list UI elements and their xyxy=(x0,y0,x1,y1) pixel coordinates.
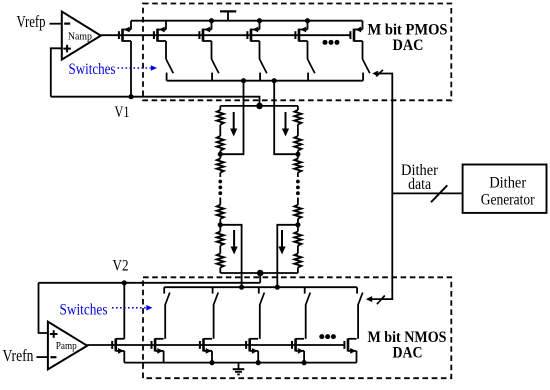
current arrow (top-right branch) xyxy=(282,112,289,137)
label Vrefp xyxy=(17,12,46,31)
wire: Vrefn to Pamp inverting input xyxy=(37,356,48,358)
resistor R5 xyxy=(217,232,224,246)
dashed enclosure: M bit NMOS DAC xyxy=(143,277,451,378)
ground xyxy=(233,363,245,375)
wire xyxy=(219,268,221,274)
label Dither data xyxy=(401,162,439,193)
wire xyxy=(219,125,221,137)
block: Dither Generator xyxy=(463,165,547,213)
wire: M1 drain down to node V1 xyxy=(130,41,132,97)
wire xyxy=(219,173,221,178)
resistor R8 xyxy=(294,136,301,151)
NMOS M8 xyxy=(152,338,164,362)
resistor R3 xyxy=(217,159,224,173)
bus slash on bottom dither line xyxy=(377,296,385,305)
supply VDD xyxy=(220,11,236,20)
junction on VDD rail at M3 source xyxy=(209,18,214,23)
bus slash on dither data branch xyxy=(431,185,447,202)
switch S3 (top DAC) xyxy=(260,41,267,81)
NMOS M10 xyxy=(246,338,258,362)
wire: ladder top bar xyxy=(220,105,298,107)
node V1 to ladder (big junction) xyxy=(256,103,263,110)
bus slash on top dither line xyxy=(376,70,383,77)
svg-text:DAC: DAC xyxy=(393,345,423,362)
wire: ladder bottom bar xyxy=(220,272,298,274)
label V2 xyxy=(113,258,129,275)
resistor R12 xyxy=(294,254,301,268)
junction: bottom bar to right ladder tap xyxy=(275,285,280,290)
wire: bottom switch output bar xyxy=(164,286,357,288)
node: right tap 2 xyxy=(295,222,300,227)
junction on ground rail at M9 xyxy=(209,360,214,365)
svg-text:Vrefp: Vrefp xyxy=(17,12,46,31)
PMOS M2 xyxy=(154,21,166,42)
label M bit PMOS DAC xyxy=(368,22,448,55)
NMOS M7 (bias, outside box) xyxy=(112,338,124,362)
current arrow (bottom-right branch) xyxy=(278,230,285,255)
node: right tap 1 xyxy=(295,152,300,157)
wire xyxy=(219,198,221,205)
ellipsis between PMOS M5 and M6 xyxy=(323,40,340,45)
label Switches (bottom) xyxy=(60,301,108,318)
wire: left tap 2 to bottom bar xyxy=(220,225,241,287)
ellipsis: right string continues xyxy=(296,180,300,196)
arrowhead: dither control to bottom switch S10 xyxy=(366,296,372,302)
switch S1 (top DAC) xyxy=(166,41,173,81)
switch S7 (bottom DAC) xyxy=(213,287,219,339)
wire xyxy=(297,219,299,232)
wire: right string top lead xyxy=(297,106,299,110)
label Vrefn xyxy=(3,346,34,365)
junction on VDD rail at M4 source xyxy=(257,18,262,23)
wire: ground rail xyxy=(124,362,356,364)
wire: Namp output to PMOS gate bus xyxy=(101,34,119,36)
junction: bar to right ladder tap xyxy=(272,78,277,83)
dotted pointer to top switches xyxy=(118,65,158,71)
NMOS M12 xyxy=(344,338,356,362)
op-amp Namp xyxy=(62,12,101,60)
switch S2 (top DAC) xyxy=(212,41,219,81)
PMOS M1 (bias, outside box) xyxy=(119,21,131,42)
wire xyxy=(219,246,221,254)
svg-text:M bit NMOS: M bit NMOS xyxy=(368,329,447,346)
resistor R4 xyxy=(217,205,224,219)
junction on VDD rail at M5 source xyxy=(305,18,310,23)
current arrow (bottom-left branch) xyxy=(231,230,238,255)
wire xyxy=(297,268,299,274)
PMOS M4 xyxy=(247,21,259,42)
wire: dither data branch to generator xyxy=(392,192,462,194)
switch S9 (bottom DAC) xyxy=(305,287,311,339)
svg-text:V2: V2 xyxy=(113,258,129,275)
wire: ladder to V2 rail xyxy=(259,273,261,283)
svg-text:Vrefn: Vrefn xyxy=(3,346,34,365)
wire: node V2 rail xyxy=(39,282,261,284)
svg-text:V1: V1 xyxy=(115,104,130,121)
svg-text:M bit PMOS: M bit PMOS xyxy=(368,22,448,39)
wire: top switch output bar xyxy=(167,80,364,82)
wire: VDD rail xyxy=(131,20,363,22)
svg-text:data: data xyxy=(408,176,431,193)
svg-text:Dither: Dither xyxy=(489,174,527,191)
resistor R11 xyxy=(294,232,301,246)
resistor R2 xyxy=(217,136,224,151)
svg-text:DAC: DAC xyxy=(393,37,424,54)
PMOS M5 xyxy=(295,21,307,42)
wire: Vrefp to Namp inverting input xyxy=(50,23,62,25)
switch S6 (bottom DAC) xyxy=(164,287,170,339)
resistor R1 xyxy=(217,110,224,125)
wire: V2 down to M7 drain xyxy=(123,283,125,339)
wire xyxy=(297,151,299,159)
dotted pointer to bottom switches xyxy=(112,305,153,311)
svg-text:Switches: Switches xyxy=(69,61,116,78)
wire: node V1 rail xyxy=(51,97,260,106)
wire xyxy=(219,219,221,232)
junction: bottom bar to left ladder tap xyxy=(239,285,244,290)
svg-text:Switches: Switches xyxy=(60,301,108,318)
wire: common NMOS gate bus xyxy=(112,344,344,346)
NMOS M9 xyxy=(200,338,212,362)
svg-text:Pamp: Pamp xyxy=(56,341,77,352)
svg-text:Namp: Namp xyxy=(68,32,92,43)
wire xyxy=(297,198,299,205)
ellipsis between NMOS M11 and M12 xyxy=(319,334,336,339)
wire: left string top lead xyxy=(219,106,221,110)
junction on ground rail at M10 xyxy=(256,360,261,365)
resistor R9 xyxy=(294,159,301,173)
label Dither Generator xyxy=(481,174,536,208)
wire: Pamp output to NMOS gate bus xyxy=(87,344,112,346)
resistor R7 xyxy=(294,110,301,125)
node V2 big junction xyxy=(257,270,264,277)
label M bit NMOS DAC xyxy=(368,329,447,362)
wire: left tap 1 to top bar xyxy=(220,81,243,155)
resistor R10 xyxy=(294,205,301,219)
switch S4 (top DAC) xyxy=(308,41,315,81)
wire: right tap 1 to top bar xyxy=(274,81,298,155)
wire: V1 feedback to Namp non-inverting input xyxy=(51,48,62,96)
wire: right tap 2 to bottom bar xyxy=(277,225,298,287)
junction: bar to left ladder tap xyxy=(241,78,246,83)
wire: V2 feedback to Pamp non-inverting input xyxy=(39,283,48,333)
wire xyxy=(297,173,299,178)
wire xyxy=(219,151,221,159)
current arrow (top-left branch) xyxy=(230,112,237,137)
wire: common PMOS gate bus xyxy=(119,34,351,36)
wire xyxy=(297,246,299,254)
ellipsis: left string continues xyxy=(218,180,222,196)
PMOS M6 xyxy=(350,21,362,42)
node: left tap 2 xyxy=(218,222,223,227)
PMOS M3 xyxy=(199,21,211,42)
node: left tap 1 xyxy=(218,152,223,157)
junction on ground rail at M11 xyxy=(302,360,307,365)
arrowhead: dither control to top switch S5 xyxy=(372,71,378,77)
label V1 xyxy=(115,104,130,121)
junction: M1 drain on V1 rail xyxy=(128,94,133,99)
junction: V2 to NMOS M7 drain xyxy=(122,280,127,285)
dashed enclosure: M bit PMOS DAC xyxy=(143,4,451,101)
wire xyxy=(297,125,299,137)
svg-text:Generator: Generator xyxy=(481,192,536,209)
switch S10 (bottom DAC) xyxy=(357,287,363,339)
op-amp Pamp xyxy=(48,322,87,370)
wire: dither data net xyxy=(371,74,392,300)
switch S8 (bottom DAC) xyxy=(259,287,265,339)
resistor R6 xyxy=(217,254,224,268)
switch S5 (top DAC) xyxy=(363,41,370,81)
NMOS M11 xyxy=(292,338,304,362)
label Switches (top) xyxy=(69,61,116,78)
